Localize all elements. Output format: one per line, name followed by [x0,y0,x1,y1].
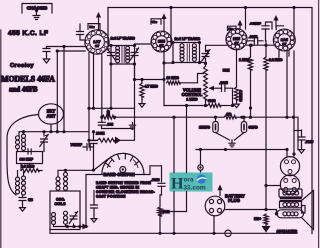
capacitor grid return w ground [43,47,50,56]
wire band sw right [144,166,162,182]
wire down 287 [286,150,288,157]
wire band sw diag [94,159,108,170]
svg-text:33.com: 33.com [184,185,206,192]
chassis label box [22,4,52,20]
wire avc mid [89,107,135,109]
svg-text:Crosley: Crosley [10,63,34,69]
IF2 core [187,44,189,61]
wire V3 right to tube4 [247,44,274,46]
wire grid to output tube [266,185,280,187]
svg-text:OSC.: OSC. [56,198,65,202]
svg-text:4.7 MEG: 4.7 MEG [145,85,159,89]
300MMF box [17,152,43,164]
svg-text:3.3 MEG: 3.3 MEG [21,164,35,168]
scan border right edge [318,0,320,248]
svg-text:PLUG: PLUG [228,198,241,203]
wire bus drop tube4 [293,8,295,41]
OSC COILS box [50,191,80,230]
svg-text:.082: .082 [107,123,114,127]
wire antenna curve [7,115,39,196]
svg-text:50c: 50c [90,25,95,29]
EXT ANT circle [39,104,64,124]
IF2 primary coil [180,44,184,62]
wire drop tube4 cathode [286,51,288,117]
battery minus symbol [225,230,231,236]
resistor 55M [158,207,162,216]
output transformer secondary [280,202,302,208]
tube V4 1A5GT output [273,29,295,51]
tube V1 1A7GT converter [85,30,109,54]
IF2 frame [173,43,200,63]
cap .082 [101,117,103,122]
svg-text:200M: 200M [96,131,105,135]
ant coil secondary [22,134,26,150]
svg-text:55M: 55M [163,210,170,214]
wire plug bottom [213,216,215,234]
IF1 core [122,47,124,63]
svg-text:2.2 MEG: 2.2 MEG [269,58,283,62]
ground solid [262,226,271,233]
wire band sw left [86,175,102,227]
band switch contacts [106,154,139,167]
svg-text:50M: 50M [223,69,230,73]
wire IF1 left rail down [110,64,112,108]
battery plug [205,196,225,216]
svg-text:10 MEG: 10 MEG [167,76,180,80]
wire grid line 131.7 [19,131,89,133]
svg-text:MODELS 46FA: MODELS 46FA [1,75,55,84]
grid cap arrow V3 [239,26,241,29]
cap CB [22,196,24,198]
wire B+ to output [196,149,287,151]
grid label box V1 [88,24,100,30]
wire V1 pin down a [88,53,90,148]
svg-text:.0015: .0015 [305,140,313,144]
wire verticals 57 64 [57,47,64,132]
wire plug right to speaker [225,210,277,214]
wire osc box bottom [54,224,74,227]
wire bus drop to IF2 [171,8,173,43]
grid cap arrow V1 [98,18,100,30]
svg-text:CB: CB [28,198,33,202]
capacitor grid V1 [79,24,81,32]
node IF1 corners [109,44,112,47]
svg-text:BAND SWITCH: BAND SWITCH [104,172,135,177]
volume pot 1 MEG [204,66,208,100]
wire AVC line [135,79,165,81]
svg-text:GT: GT [234,41,238,45]
svg-text:GT: GT [95,44,99,48]
svg-text:75MMF: 75MMF [71,143,83,147]
wire V2 left pin [135,43,152,45]
IF1 secondary coil [126,46,130,63]
osc coil top a [56,177,60,190]
svg-text:GT: GT [282,42,286,46]
wires electrolytics to ground [216,133,245,142]
grid arrow V4 [275,21,277,27]
grid label box V3 [228,26,237,30]
watermark globe [197,174,206,183]
svg-text:50c: 50c [229,27,234,31]
svg-text:50c: 50c [152,20,157,24]
IF2 secondary coil [192,44,196,62]
battery plug arrow [219,190,221,196]
svg-text:BAND SWITCH VIEWED FROM: BAND SWITCH VIEWED FROM [96,181,151,185]
wire 302 tap [294,130,302,132]
osc coil bottom a [52,213,56,225]
wire 186 below watermark [162,192,187,212]
wire B- bus [50,230,296,234]
svg-text:and 46FB: and 46FB [9,87,38,94]
capacitor band [87,144,90,151]
transformer laminations [281,198,302,200]
svg-text:CAST POSITION: CAST POSITION [96,194,126,198]
osc coil bottom b [64,211,68,224]
wire 128 line [102,128,133,130]
wire 174 drop [173,117,175,172]
wire top B+ bus [108,8,312,234]
IF1 trimmer right [130,48,138,60]
wire A battery line [54,226,84,228]
osc coil left pair [16,177,20,194]
svg-text:SHAFT END. SHOWN IN: SHAFT END. SHOWN IN [96,186,140,190]
IF1 trimmer left [107,48,115,60]
svg-text:MB+: MB+ [254,217,261,221]
pot wiper arrow [214,87,222,89]
wire bus drop to tube3 plate [245,8,247,30]
svg-text:300 MMF: 300 MMF [20,158,34,162]
band switch rotor [102,153,144,174]
watermark box [170,173,213,192]
wire bus drop to IF1 [108,8,111,46]
svg-text:GT: GT [159,43,163,47]
wire IF1 right rail down [134,64,136,76]
tube3 grid line + trimmer [206,45,227,51]
jack circle [200,150,202,174]
IF1 frame [111,46,135,65]
svg-text:.0035: .0035 [249,35,258,39]
ant coil primary [16,136,20,149]
wire 174 below watermark [173,192,175,234]
IF1 primary coil [116,46,120,63]
svg-text:1 MEG: 1 MEG [186,98,197,102]
svg-text:.00MMF: .00MMF [250,22,261,26]
wire V1 pin down c [101,54,103,118]
cap with ground mid [93,191,95,206]
tube V2 1N5GT IF amp [151,31,172,52]
speaker cone [302,191,314,230]
wire V1 pins left [47,47,87,52]
grid cap arrow V2 [163,20,165,32]
node top bus junctions [169,6,172,9]
voice coil housing [277,210,304,218]
wire drop 294 [293,51,295,156]
grid label box V2 [151,19,161,24]
plug arrow A- [82,224,88,230]
scan border left edge [0,30,2,248]
svg-text:15MFD: 15MFD [199,126,211,130]
svg-text:1st I.F TRANS: 1st I.F TRANS [111,37,136,41]
resistor 4.7 MEG vertical [236,49,238,87]
wire vol out down [186,106,188,173]
svg-text:COILS: COILS [55,202,67,206]
wire 2.2meg down long [265,70,267,210]
svg-text:H: H [171,176,184,193]
rectifier circle B [280,175,299,194]
svg-text:6MFD: 6MFD [249,126,259,130]
svg-text:.0018: .0018 [151,178,160,182]
osc coil top b [64,172,68,190]
svg-text:3300: 3300 [208,99,216,103]
trimmer ant [40,135,48,147]
tube V3 1H5GT det-AF [226,29,247,50]
grid label box V4 [276,26,283,30]
svg-text:455 K.C. I.F: 455 K.C. I.F [8,30,48,37]
wire ant drop [50,124,52,132]
wire V4 pins down [279,51,289,58]
output transformer primary [279,189,302,197]
svg-text:CONTROL: CONTROL [182,92,203,97]
osc trimmer [69,212,77,224]
svg-text:4.7MEG: 4.7MEG [239,90,243,102]
node IF2 corners [171,41,174,44]
svg-text:ANT: ANT [46,114,55,119]
svg-text:2nd I.F TRANS: 2nd I.F TRANS [175,37,201,41]
wire V2 pin down [164,51,173,106]
wire V1 pin down b [93,54,95,109]
rectifier circle A [280,157,299,176]
svg-text:ora: ora [184,177,194,184]
svg-text:.0035: .0035 [219,81,228,85]
wire osc tops [58,170,94,176]
